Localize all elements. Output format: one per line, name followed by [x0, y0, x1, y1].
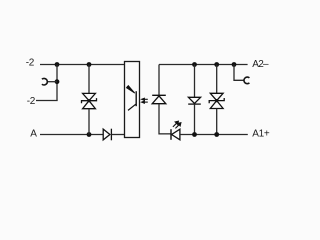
svg-text:A2–: A2– — [252, 59, 269, 70]
svg-text:A: A — [30, 128, 37, 139]
terminal label A1+ — [252, 129, 270, 140]
wire: branch 1 lower lead down to bottom corner — [158, 104, 160, 135]
terminal label A — [30, 128, 37, 139]
terminal label -2 (upper) — [26, 57, 35, 68]
node: junction top rail / diode D2 branch — [192, 62, 197, 67]
wire: test tap stub (right) — [233, 65, 244, 81]
TVS suppressor V2 (bidirectional, right) — [209, 93, 224, 108]
wire: test tap stub (left) — [47, 81, 57, 83]
wire: indicator LED to A1+ terminal — [180, 134, 248, 136]
wire: diode D2 upper lead — [194, 65, 196, 98]
wire: TVS V2 lower lead — [216, 109, 218, 135]
node: junction bottom rail / TVS V2 branch — [214, 132, 219, 137]
test tap hook (right, opening right) — [244, 77, 249, 84]
wire: right top rail (A2- rail) — [159, 64, 248, 66]
terminal label -2 (lower) — [27, 96, 36, 107]
emission arrows of indicator LED H1 — [173, 121, 181, 128]
node: junction top rail / TVS branch — [87, 62, 92, 67]
indicator LED H1 (cathode left, on A1+ line) — [171, 129, 180, 140]
node: junction test-tap / vertical link — [55, 79, 60, 84]
diode D1 (series diode on A line, cathode right) — [103, 129, 111, 141]
wire: diode D2 lower lead — [194, 104, 196, 134]
node: junction top rail / test tap (right) — [232, 62, 237, 67]
wire: TVS V1 upper lead — [88, 65, 90, 94]
wire: TVS V2 upper lead — [216, 65, 218, 94]
diode D2 (freewheeling, cathode down) — [188, 97, 201, 104]
node: junction A wire / TVS branch — [87, 132, 92, 137]
svg-text:A1+: A1+ — [252, 129, 270, 140]
node: junction -2 rail / vertical link — [55, 62, 60, 67]
wire: -2 upper to top rail junction, continuing to optocoupler box — [40, 64, 125, 66]
light arrows from LED to phototransistor — [141, 98, 148, 104]
wire: corner to indicator LED — [159, 133, 171, 135]
phototransistor of U1 (inside box) — [126, 86, 136, 111]
wire: vertical link between -2 terminals — [56, 65, 58, 101]
svg-text:-2: -2 — [27, 96, 36, 107]
node: junction bottom rail / diode D2 branch — [192, 132, 197, 137]
wire: TVS V1 lower lead — [88, 109, 90, 135]
test tap hook (left, opening left) — [42, 78, 47, 85]
wire: A terminal to diode D1 — [40, 134, 103, 136]
opto LED of U1 (cathode up) — [152, 95, 166, 103]
TVS suppressor V1 (bidirectional, left) — [82, 93, 97, 108]
node: junction top rail / TVS V2 branch — [214, 62, 219, 67]
wire: -2 lower to vertical link — [36, 100, 58, 102]
wire: branch 1 upper lead (opto LED branch) — [158, 65, 160, 96]
optocoupler U1 body — [125, 62, 140, 138]
terminal label A2- — [252, 59, 269, 70]
wire: diode D1 to optocoupler box — [111, 134, 124, 136]
svg-text:-2: -2 — [26, 57, 35, 68]
